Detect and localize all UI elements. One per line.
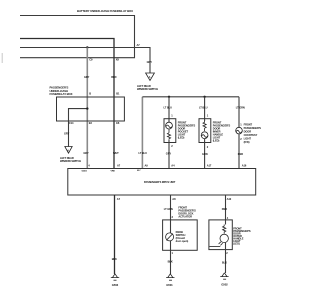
svg-text:LT BLU: LT BLU <box>164 105 173 109</box>
svg-text:door open): door open) <box>176 239 189 243</box>
svg-text:COURTESY: COURTESY <box>244 133 258 137</box>
svg-text:BLK: BLK <box>222 261 227 265</box>
svg-text:GRN: GRN <box>202 152 208 156</box>
svg-text:C14: C14 <box>69 121 74 125</box>
svg-text:VRE: VRE <box>111 171 116 173</box>
svg-text:FUSE/RELAY BOX: FUSE/RELAY BOX <box>50 92 73 96</box>
svg-text:LT BLU: LT BLU <box>139 151 148 155</box>
svg-text:G501: G501 <box>166 283 173 287</box>
svg-text:LIGHT: LIGHT <box>244 137 252 141</box>
svg-text:GRY: GRY <box>84 75 90 79</box>
svg-text:GRY: GRY <box>64 132 70 136</box>
svg-text:GRY: GRY <box>147 60 153 64</box>
svg-text:A: A <box>67 150 69 153</box>
svg-text:LT GRN: LT GRN <box>236 106 245 110</box>
svg-text:GRY: GRY <box>83 151 89 155</box>
svg-text:GRY: GRY <box>166 152 172 156</box>
svg-text:GA01: GA01 <box>82 169 88 172</box>
svg-text:WINDOW SWITCH: WINDOW SWITCH <box>137 87 158 91</box>
svg-text:(LED): (LED) <box>233 241 240 245</box>
svg-text:RED: RED <box>222 207 227 211</box>
svg-text:FRONT: FRONT <box>244 123 253 127</box>
svg-text:WHT: WHT <box>113 151 119 155</box>
svg-text:A10: A10 <box>227 197 232 201</box>
svg-text:(LED): (LED) <box>213 139 220 143</box>
svg-text:ACTUATOR: ACTUATOR <box>178 215 192 219</box>
svg-text:B: B <box>89 92 91 96</box>
svg-text:G502: G502 <box>221 283 228 287</box>
svg-text:BATTERY UNDER–DASH FUSE/RELAY: BATTERY UNDER–DASH FUSE/RELAY BOX <box>77 9 133 13</box>
svg-text:A17: A17 <box>207 164 212 168</box>
svg-text:G503: G503 <box>112 283 119 287</box>
svg-text:PASSENGER'S MPCS UNIT: PASSENGER'S MPCS UNIT <box>144 180 176 184</box>
svg-text:LT BLU: LT BLU <box>199 105 208 109</box>
svg-text:RED: RED <box>238 152 243 156</box>
svg-text:RED: RED <box>111 75 116 79</box>
svg-text:PASSENGER'S: PASSENGER'S <box>244 126 262 130</box>
svg-text:BLK: BLK <box>112 257 117 261</box>
svg-text:DOOR: DOOR <box>244 130 252 134</box>
svg-text:(LED): (LED) <box>178 136 185 140</box>
svg-text:(8 W): (8 W) <box>244 140 250 144</box>
svg-text:A16: A16 <box>242 164 247 168</box>
svg-text:BLK: BLK <box>168 259 173 263</box>
svg-text:WINDOW SWITCH: WINDOW SWITCH <box>60 159 81 163</box>
svg-text:A: A <box>149 76 151 79</box>
svg-text:LT GRN: LT GRN <box>164 207 173 211</box>
